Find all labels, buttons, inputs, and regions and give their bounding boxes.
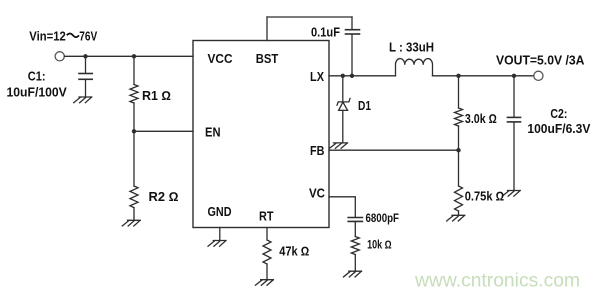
svg-text:LX: LX <box>310 70 325 84</box>
svg-text:www.cntronics.com: www.cntronics.com <box>414 271 580 292</box>
svg-text:GND: GND <box>208 205 232 219</box>
node: bootstrap tap on LX <box>350 74 354 78</box>
svg-text:3.0k Ω: 3.0k Ω <box>465 112 497 126</box>
node: EN junction <box>132 129 136 133</box>
svg-text:10k Ω: 10k Ω <box>367 240 392 252</box>
wire: GND pin to ground <box>219 228 221 241</box>
terminal: Vin input <box>55 52 64 61</box>
terminal: VOUT output <box>534 71 543 80</box>
capacitor 0.1uF (bootstrap) <box>346 30 360 34</box>
ground (below C1) <box>74 97 92 103</box>
svg-text:10uF/100V: 10uF/100V <box>7 86 68 100</box>
ground (below 10k) <box>344 271 362 277</box>
svg-text:VCC: VCC <box>208 52 233 66</box>
wire: RT pin down to 47k <box>266 228 268 241</box>
svg-text:L : 33uH: L : 33uH <box>389 41 434 55</box>
diode D1 (schottky) <box>337 99 350 111</box>
wire: 47k bottom to ground <box>266 264 268 279</box>
ground (below C2) <box>502 191 520 197</box>
resistor R6 47k <box>263 240 271 264</box>
resistor R4 0.75k <box>455 186 463 211</box>
wire: VOUT down to C2 <box>513 76 515 117</box>
svg-text:100uF/6.3V: 100uF/6.3V <box>527 122 591 136</box>
wire: EN junction to EN pin <box>134 130 193 132</box>
op-amp U1: regulator IC body <box>193 41 329 228</box>
svg-text:R1 Ω: R1 Ω <box>142 89 171 103</box>
ground (below D1) <box>330 143 348 148</box>
svg-text:Vin=12: Vin=12 <box>29 30 66 44</box>
node: D1 tap on LX <box>341 74 345 78</box>
wire: EN junction down to R2 <box>133 131 135 186</box>
wire: R1 bottom to EN junction <box>133 103 135 131</box>
wire: input top rail Vin to VCC <box>65 55 194 57</box>
resistor R5 10k <box>351 237 359 255</box>
inductor L1 <box>396 59 433 76</box>
wire: LX down to D1 <box>342 76 344 102</box>
capacitor C1 <box>79 56 92 96</box>
ground (below 47k) <box>255 280 273 286</box>
svg-text:6800pF: 6800pF <box>366 213 400 225</box>
svg-text:R2 Ω: R2 Ω <box>149 190 179 204</box>
node: FB divider junction <box>456 148 460 152</box>
ground (below GND pin) <box>208 241 226 247</box>
resistor R3 3.0k <box>455 108 463 126</box>
svg-text:D1: D1 <box>358 99 371 113</box>
wire: BST riser from IC top <box>266 17 268 41</box>
wire: VOUT down to 3.0k <box>458 76 460 108</box>
wire: 0.75k bottom to ground <box>458 211 460 215</box>
capacitor C2 <box>508 117 521 122</box>
resistor R1 <box>130 85 138 104</box>
capacitor C3 6800pF <box>348 218 362 222</box>
wire: 6800pF to 10k <box>354 222 356 237</box>
node: Vin/R1 junction <box>132 54 136 58</box>
wire: D1 anode to ground <box>342 110 344 142</box>
svg-text:47k Ω: 47k Ω <box>279 245 309 259</box>
wire: FB node down to 0.75k <box>458 150 460 186</box>
svg-text:C2:: C2: <box>550 107 567 121</box>
node: C2 tap on VOUT <box>512 74 516 78</box>
svg-text:RT: RT <box>259 210 274 224</box>
ground (below R2) <box>122 220 140 226</box>
svg-text:BST: BST <box>256 52 279 66</box>
wire: bootstrap cap to LX rail <box>351 35 353 76</box>
wire: VC pin out <box>329 197 355 217</box>
wire: rail to R1 top <box>133 56 135 84</box>
svg-text:76V: 76V <box>79 30 98 44</box>
svg-text:C1:: C1: <box>28 70 46 84</box>
wire: 3.0k bottom to FB node <box>458 126 460 150</box>
svg-text:VC: VC <box>309 187 325 201</box>
svg-text:VOUT=5.0V /3A: VOUT=5.0V /3A <box>496 54 585 68</box>
resistor R2 <box>130 186 138 208</box>
wire: BST top loop horizontal <box>267 16 352 18</box>
wire: FB pin to divider <box>329 149 459 151</box>
wire: VOUT rail from inductor to output terminal <box>433 75 534 77</box>
wire: loop down to bootstrap cap <box>351 17 353 29</box>
svg-text:0.75k Ω: 0.75k Ω <box>465 190 505 204</box>
wire: R2 bottom to ground <box>133 208 135 220</box>
wire: 10k bottom to ground <box>354 255 356 271</box>
ground (below 0.75k) <box>447 215 465 221</box>
wire: LX rail from IC to inductor <box>329 75 396 77</box>
node: Vin/C1 junction <box>83 54 87 58</box>
svg-text:EN: EN <box>205 126 221 140</box>
node: divider tap on VOUT <box>456 74 460 78</box>
wire: C2 bottom to ground <box>513 122 515 190</box>
svg-text:FB: FB <box>310 144 324 158</box>
svg-text:0.1uF: 0.1uF <box>311 26 340 40</box>
